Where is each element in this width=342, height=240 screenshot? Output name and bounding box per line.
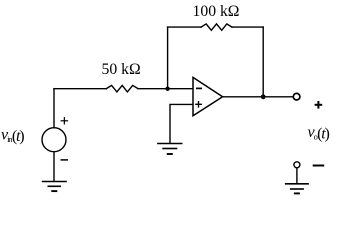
- svg-text:vin(t): vin(t): [1, 127, 24, 145]
- svg-text:100 kΩ: 100 kΩ: [193, 3, 240, 20]
- svg-text:50 kΩ: 50 kΩ: [102, 61, 141, 78]
- svg-text:vo(t): vo(t): [308, 124, 330, 142]
